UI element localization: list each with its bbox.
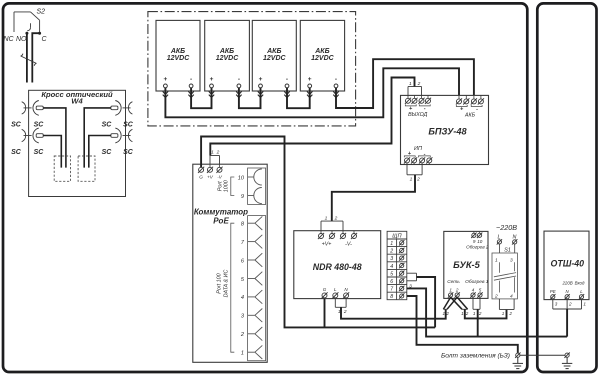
svg-text:SC: SC [34, 149, 45, 156]
svg-text:4: 4 [472, 288, 475, 293]
breaker S1 box [492, 253, 517, 299]
port 9 symbol [248, 188, 262, 204]
wire NO to cable [26, 33, 28, 82]
svg-text:1: 1 [449, 288, 452, 293]
svg-text:1: 1 [461, 311, 464, 316]
svg-text:1: 1 [583, 301, 586, 306]
wire C to cable [32, 33, 39, 82]
svg-text:Коммутатор: Коммутатор [194, 208, 248, 217]
svg-text:2: 2 [389, 249, 393, 255]
svg-text:DATA & ИС: DATA & ИС [224, 270, 230, 298]
svg-text:1: 1 [495, 258, 498, 264]
terminal strip ЩП [387, 231, 407, 299]
svg-text:NDR 480-48: NDR 480-48 [313, 262, 362, 272]
svg-text:АКБ: АКБ [314, 48, 329, 55]
svg-text:3: 3 [390, 256, 393, 262]
ОТШ cable bracket wires 3 2 1 [553, 299, 582, 309]
wire ЩП 5-6 to ground bus [417, 277, 436, 327]
fiber wire from bottom-right SC [89, 136, 111, 168]
NDR DC terminal stubs [321, 231, 354, 234]
node NO junction [25, 32, 28, 35]
switch S2 [14, 12, 40, 33]
svg-text:8: 8 [390, 294, 393, 300]
battery GB3 АКБ 12VDC [252, 20, 296, 91]
PoE switch power terminals G +V -V [198, 167, 204, 173]
svg-text:+: + [460, 107, 463, 113]
svg-text:NC: NC [4, 36, 15, 43]
svg-text:5: 5 [479, 288, 482, 293]
svg-text:ВЫХОД: ВЫХОД [408, 112, 428, 118]
svg-text:PoE: PoE [213, 217, 229, 226]
svg-text:1: 1 [443, 311, 446, 316]
svg-text:4: 4 [390, 264, 393, 270]
svg-text:ИП: ИП [414, 146, 422, 152]
svg-text:1: 1 [325, 216, 328, 222]
БПЗУ АКБ polarity brackets [456, 105, 467, 107]
wire БУК Сеть right to S1 [465, 309, 507, 318]
NDR DC cable bracket wires 1 2 [321, 221, 343, 231]
SC connector top-right [111, 101, 132, 116]
БУК Обогрев 2 terminals 9 10 [471, 233, 476, 238]
svg-text:W4: W4 [71, 97, 83, 106]
svg-text:+: + [259, 76, 263, 83]
ground bolt terminal [515, 353, 520, 358]
wire battery link GB1- to GB2+ [191, 88, 211, 108]
БПЗУ ИП polarity brackets [404, 156, 415, 158]
svg-text:220В: 220В [561, 280, 572, 285]
ground symbol right cabinet [562, 357, 572, 368]
svg-text:-: - [335, 76, 337, 83]
svg-text:+: + [210, 76, 214, 83]
svg-text:-V-: -V- [345, 241, 352, 247]
ground bolt right cabinet [564, 353, 569, 358]
NDR AC terminals [321, 292, 327, 298]
svg-text:+: + [408, 151, 411, 157]
svg-text:SC: SC [11, 149, 22, 156]
svg-text:12VDC: 12VDC [216, 55, 240, 62]
svg-text:-: - [286, 76, 288, 83]
svg-text:1: 1 [473, 311, 476, 316]
svg-text:АКБ: АКБ [170, 48, 185, 55]
БУК Сеть left cable bracket wires 1 2 [443, 308, 447, 310]
wire ground bolt link to right cabinet [520, 354, 565, 356]
svg-text:+: + [308, 76, 312, 83]
svg-text:АКБ: АКБ [464, 113, 476, 119]
svg-text:4: 4 [241, 295, 244, 301]
svg-text:Обогрев 2: Обогрев 2 [466, 245, 489, 250]
БУК Сеть crossover wires [443, 297, 467, 309]
svg-text:6: 6 [390, 279, 393, 285]
svg-text:2: 2 [494, 293, 498, 299]
svg-text:2: 2 [568, 301, 572, 306]
svg-text:-: - [476, 107, 478, 113]
БПЗУ АКБ terminal stubs [459, 95, 481, 98]
svg-text:S1: S1 [504, 248, 511, 254]
svg-text:2: 2 [445, 311, 449, 316]
S1 breaker poles [494, 262, 516, 292]
svg-text:1000: 1000 [224, 180, 230, 192]
wire ЩП 8 to ground bolt [407, 296, 518, 353]
splice cassette 1 (dashed) [54, 156, 70, 181]
SC connector bottom-left [22, 128, 44, 143]
fiber wire from bottom-left SC [43, 136, 61, 168]
ports 8..1 symbols [248, 216, 263, 359]
svg-text:2: 2 [417, 81, 421, 87]
wire БПЗУ ИП to NDR output [332, 175, 415, 221]
NDR AC terminal stubs [325, 298, 347, 299]
PoE switch power terminal stubs [201, 164, 219, 167]
svg-text:SC: SC [11, 122, 22, 129]
node C junction [38, 32, 41, 35]
svg-text:1: 1 [241, 351, 244, 357]
NDR DC terminals [318, 233, 324, 239]
svg-text:5: 5 [390, 271, 393, 277]
battery GB4 АКБ 12VDC [300, 20, 344, 91]
battery bank dash-dot enclosure [148, 12, 356, 126]
svg-text:Болт заземления (ЬЗ): Болт заземления (ЬЗ) [441, 353, 510, 360]
svg-text:SC: SC [34, 122, 45, 129]
optical cross W4 box [29, 90, 126, 196]
svg-text:+V: +V [207, 175, 214, 180]
svg-text:10: 10 [238, 175, 245, 181]
SC connector bottom-right [111, 128, 132, 143]
БПЗУ ИП terminals [404, 157, 410, 163]
mains stubs to S1 [499, 244, 514, 253]
БПЗУ ИП cable bracket with wires 1 2 [407, 165, 422, 175]
fiber wire from top-left SC [43, 108, 66, 168]
svg-text:3: 3 [510, 258, 513, 264]
cabinet heater ОТШ-40 [544, 231, 589, 300]
БУК Обогрев 2 terminal stubs [474, 231, 480, 233]
svg-text:ОТШ-40: ОТШ-40 [551, 259, 585, 269]
svg-text:9: 9 [473, 239, 476, 244]
svg-text:Port 100: Port 100 [217, 273, 223, 293]
svg-text:Обогрев 1: Обогрев 1 [465, 279, 489, 285]
svg-text:1: 1 [410, 176, 413, 182]
S1 output cable bracket wires 1 2 [499, 299, 514, 310]
splice cassette 2 (dashed) [78, 156, 95, 181]
svg-text:2: 2 [343, 309, 347, 315]
svg-text:12VDC: 12VDC [263, 55, 287, 62]
БУК Сеть right cable bracket wires 1 2 [462, 308, 468, 310]
climate control unit БУК-5 [444, 231, 488, 298]
svg-text:АКБ: АКБ [219, 48, 234, 55]
wire ЩП 7 to heater line [407, 288, 567, 336]
wire ОТШ cable to heater line [566, 309, 568, 337]
svg-text:-: - [190, 76, 192, 83]
ЩП row screws [399, 240, 404, 245]
БПЗУ ВЫХОД terminal stubs [408, 95, 428, 98]
svg-text:АКБ: АКБ [266, 48, 281, 55]
БПЗУ ИП terminal stubs [407, 163, 429, 165]
БПЗУ АКБ terminals [456, 98, 462, 104]
svg-text:БУК-5: БУК-5 [453, 260, 480, 270]
svg-text:9: 9 [241, 194, 244, 200]
svg-text:12VDC: 12VDC [167, 55, 191, 62]
ЩП rows 5-6 cable bracket [407, 273, 417, 281]
svg-text:2: 2 [416, 176, 420, 182]
cable crossing mark on S2 wires [21, 54, 37, 66]
БПЗУ ВЫХОД terminals [405, 98, 411, 104]
svg-text:ЩП: ЩП [392, 233, 402, 239]
wire БПЗУ ВЫХОД to PoE switch power [210, 78, 414, 156]
wire БУК Обогрев 1 to heater line [477, 309, 479, 336]
svg-text:L: L [334, 287, 337, 292]
svg-text:4: 4 [510, 293, 513, 299]
svg-text:Сеть: Сеть [447, 279, 460, 285]
port group 1000 box [248, 168, 266, 205]
svg-text:-: - [424, 152, 426, 158]
svg-text:2: 2 [508, 311, 512, 316]
svg-text:+: + [164, 76, 168, 83]
svg-text:БПЗУ-48: БПЗУ-48 [428, 126, 467, 136]
svg-text:+V+: +V+ [322, 241, 332, 247]
wire battery GB1+ to БПЗУ АКБ+ [165, 68, 459, 117]
svg-text:1: 1 [502, 311, 505, 316]
battery terminal connector chevrons [163, 91, 168, 97]
svg-text:-: - [238, 76, 240, 83]
svg-text:РЕ: РЕ [550, 289, 556, 294]
wire NDR G to ground bus [324, 299, 326, 328]
power supply unit БПЗУ-48 [401, 95, 489, 164]
wire battery GB4- to БПЗУ АКБ- [336, 59, 474, 108]
svg-text:2: 2 [455, 288, 459, 293]
svg-text:G: G [199, 175, 203, 180]
svg-text:2: 2 [216, 150, 220, 156]
svg-text:G: G [323, 287, 327, 292]
svg-text:10: 10 [477, 239, 483, 244]
wire NDR L N to БУК Сеть [341, 307, 446, 318]
svg-text:SC: SC [102, 149, 113, 156]
heater cabinet enclosure frame (right) [537, 3, 596, 372]
wire battery link GB2- to GB3+ [239, 88, 261, 108]
svg-text:1: 1 [390, 241, 393, 247]
port 10 symbol [248, 169, 262, 185]
БПЗУ ВЫХОД polarity brackets [405, 104, 416, 106]
PoE power cable bracket wires 1 2 [210, 156, 220, 165]
SC connector top-left [22, 101, 44, 116]
svg-text:~220В: ~220В [496, 223, 517, 232]
svg-text:3: 3 [555, 301, 558, 306]
svg-text:1: 1 [211, 150, 214, 156]
port group 100 box [248, 216, 266, 361]
ground symbol main cabinet [513, 357, 523, 368]
wire battery link GB3- to GB4+ [287, 88, 310, 108]
svg-text:SC: SC [102, 122, 113, 129]
PoE switch Коммутатор PoE box [193, 164, 267, 362]
svg-text:SC: SC [123, 122, 134, 129]
bracket Port 100 [231, 223, 235, 352]
svg-text:S2: S2 [37, 9, 46, 16]
AC-DC power supply NDR 480-48 [294, 231, 381, 299]
fiber wire from top-right SC [84, 108, 111, 168]
svg-text:2: 2 [334, 216, 338, 222]
svg-text:NO: NO [16, 36, 27, 43]
NDR L N cable bracket wires 1 2 [335, 299, 346, 308]
ОТШ terminals [550, 294, 555, 299]
svg-text:Вход: Вход [575, 280, 585, 285]
battery GB2 АКБ 12VDC [205, 20, 250, 91]
БПЗУ ВЫХОД cable bracket with wires 1 2 [408, 87, 422, 96]
wire PoE switch G to ground bus [201, 137, 435, 328]
bracket Port 1000 [231, 177, 235, 196]
svg-text:1: 1 [409, 81, 412, 87]
БУК Обогрев 1 cable bracket wires 1 2 [473, 297, 480, 309]
battery GB1 АКБ 12VDC [156, 20, 200, 91]
svg-text:SC: SC [123, 149, 134, 156]
svg-text:12VDC: 12VDC [311, 55, 335, 62]
